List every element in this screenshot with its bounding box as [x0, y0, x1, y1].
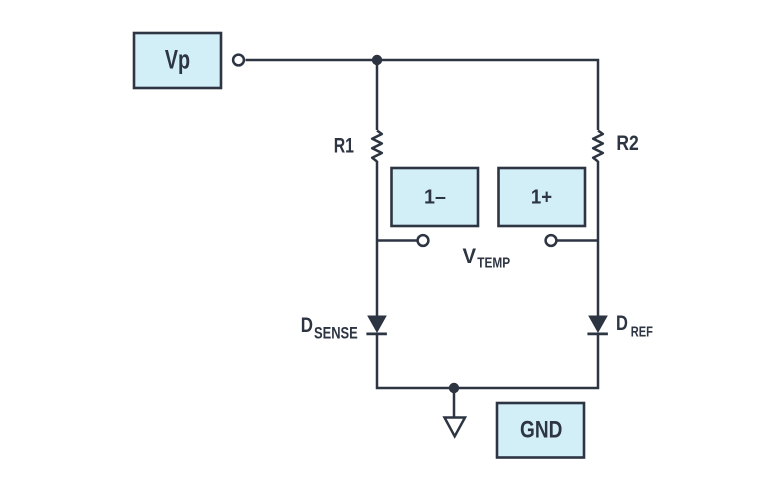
- svg-text:1–: 1–: [424, 185, 446, 208]
- svg-text:SENSE: SENSE: [314, 324, 358, 342]
- terminal circle 1- (V_TEMP left): [418, 235, 429, 246]
- wire top rail: [246, 60, 599, 130]
- svg-text:D: D: [616, 312, 628, 335]
- svg-text:REF: REF: [631, 324, 653, 341]
- node junction bottom (dot): [449, 383, 459, 393]
- wire R1 bottom to D_SENSE anode: [376, 161, 379, 316]
- diode D_SENSE (triangle + cathode bar): [366, 316, 387, 334]
- diode D_REF (triangle + cathode bar): [587, 316, 608, 334]
- wire stub left to V_TEMP terminal: [377, 239, 418, 242]
- terminal circle at Vp output: [233, 55, 244, 66]
- svg-text:R2: R2: [616, 132, 638, 155]
- ground symbol (open triangle): [445, 418, 466, 437]
- wire stub right from V_TEMP terminal: [557, 239, 599, 242]
- resistor R2 (zigzag): [593, 131, 603, 162]
- svg-text:GND: GND: [520, 417, 562, 444]
- svg-text:R1: R1: [334, 134, 355, 157]
- svg-text:D: D: [301, 313, 313, 337]
- terminal circle 1+ (V_TEMP right): [546, 235, 557, 246]
- pin box 1+: [499, 168, 586, 226]
- Vp source box: [134, 33, 221, 88]
- resistor R1 (zigzag): [372, 131, 382, 162]
- wire junction to ground: [453, 388, 456, 418]
- svg-text:V: V: [463, 244, 477, 268]
- GND box: [497, 403, 584, 458]
- svg-text:Vp: Vp: [165, 45, 190, 75]
- wire bottom rail: [377, 334, 598, 388]
- pin box 1-: [392, 168, 479, 226]
- wire R2 bottom to D_REF anode: [597, 161, 600, 316]
- node junction top (dot): [372, 55, 382, 65]
- wire from top junction down to R1: [376, 60, 379, 130]
- svg-text:TEMP: TEMP: [477, 254, 510, 271]
- svg-text:1+: 1+: [531, 185, 552, 208]
